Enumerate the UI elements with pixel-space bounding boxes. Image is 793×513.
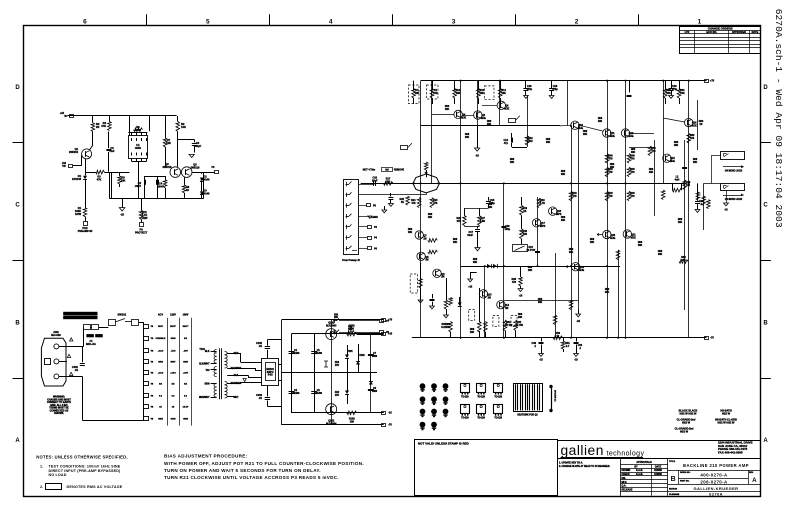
svg-text:R00: R00 bbox=[678, 219, 683, 221]
svg-text:HEATSINK FOR Q1: HEATSINK FOR Q1 bbox=[517, 414, 538, 417]
svg-text:10K: 10K bbox=[583, 134, 588, 136]
svg-text:4uH: 4uH bbox=[675, 178, 680, 181]
svg-text:HS2 W: HS2 W bbox=[682, 420, 691, 424]
svg-text:10K: 10K bbox=[666, 92, 671, 95]
svg-text:TURN ON POWER AND WAIT 5 SECON: TURN ON POWER AND WAIT 5 SECONDS FOR TUR… bbox=[164, 468, 321, 473]
svg-text:10K: 10K bbox=[678, 222, 683, 224]
svg-text:HS2 W: HS2 W bbox=[680, 429, 689, 433]
svg-text:10K: 10K bbox=[605, 292, 610, 294]
svg-text:CONNECT TO EARTH: CONNECT TO EARTH bbox=[47, 401, 71, 404]
svg-text:1K POT: 1K POT bbox=[526, 249, 535, 252]
svg-text:MJE: MJE bbox=[481, 117, 486, 120]
svg-text:10K: 10K bbox=[334, 317, 338, 319]
svg-text:1/2W: 1/2W bbox=[75, 212, 82, 216]
svg-text:100V: 100V bbox=[183, 314, 189, 317]
svg-text:CHANGE ORDERS: CHANGE ORDERS bbox=[708, 26, 733, 30]
svg-text:15V: 15V bbox=[335, 395, 340, 397]
svg-text:TO-220: TO-220 bbox=[494, 396, 502, 398]
svg-text:BRN: BRN bbox=[205, 384, 210, 386]
svg-text:WHT*: WHT* bbox=[170, 326, 176, 328]
svg-text:A: A bbox=[752, 477, 757, 484]
svg-text:A: A bbox=[763, 438, 768, 444]
svg-text:10K: 10K bbox=[693, 162, 698, 164]
svg-text:2K2: 2K2 bbox=[386, 180, 391, 183]
svg-text:WHT: WHT bbox=[171, 361, 177, 363]
svg-text:R00: R00 bbox=[693, 159, 698, 161]
svg-text:10uF: 10uF bbox=[467, 234, 473, 237]
svg-text:T101: T101 bbox=[199, 348, 205, 351]
svg-text:10K/80: 10K/80 bbox=[292, 353, 300, 355]
svg-text:330: 330 bbox=[523, 233, 528, 236]
svg-text:R00: R00 bbox=[518, 314, 523, 316]
svg-text:1N4148: 1N4148 bbox=[72, 177, 82, 181]
svg-text:2: 2 bbox=[575, 19, 579, 26]
svg-text:NOTES: UNLESS OTHERWISE SPECIF: NOTES: UNLESS OTHERWISE SPECIFIED, bbox=[36, 455, 127, 460]
svg-text:WHT*: WHT* bbox=[183, 326, 189, 328]
svg-text:1/4 MONO JACK: 1/4 MONO JACK bbox=[725, 170, 743, 173]
svg-text:1/30/03: 1/30/03 bbox=[654, 474, 662, 476]
svg-text:DATE: DATE bbox=[655, 465, 662, 468]
svg-text:5: 5 bbox=[206, 19, 210, 26]
svg-text:K.A.B.: K.A.B. bbox=[636, 473, 643, 476]
svg-text:WITH POWER OFF, ADJUST POT R21: WITH POWER OFF, ADJUST POT R21 TO FULL C… bbox=[164, 461, 364, 466]
svg-text:ISS.: ISS. bbox=[622, 478, 627, 480]
svg-text:R00: R00 bbox=[408, 229, 413, 231]
svg-text:ZD1: ZD1 bbox=[335, 362, 340, 364]
svg-text:+15: +15 bbox=[60, 112, 65, 115]
svg-text:+43.6: +43.6 bbox=[170, 371, 176, 374]
svg-text:MJ15003: MJ15003 bbox=[326, 324, 337, 327]
svg-text:100p: 100p bbox=[505, 228, 511, 231]
svg-text:technology: technology bbox=[607, 450, 645, 457]
svg-text:R00: R00 bbox=[561, 171, 566, 173]
svg-text:2N: 2N bbox=[425, 259, 428, 262]
svg-text:10K: 10K bbox=[590, 242, 595, 244]
svg-text:LTR: LTR bbox=[685, 31, 690, 34]
svg-text:2. CHANGE SLOPE AT REAR TO 15: 2. CHANGE SLOPE AT REAR TO 15 DEGREES. bbox=[559, 465, 610, 468]
svg-text:MPS: MPS bbox=[556, 213, 562, 216]
svg-text:GRN: GRN bbox=[183, 361, 188, 363]
svg-text:D101: D101 bbox=[347, 351, 353, 353]
svg-text:bbl: bbl bbox=[385, 170, 389, 172]
svg-text:2.: 2. bbox=[40, 485, 43, 489]
svg-text:100: 100 bbox=[350, 420, 355, 423]
svg-text:GRN: GRN bbox=[158, 361, 163, 363]
svg-text:1: 1 bbox=[698, 19, 702, 26]
svg-text:R00: R00 bbox=[583, 131, 588, 133]
svg-text:2K: 2K bbox=[96, 125, 99, 129]
svg-text:GRN: GRN bbox=[171, 338, 176, 340]
svg-text:-43.6: -43.6 bbox=[171, 350, 177, 353]
svg-text:10K: 10K bbox=[488, 207, 493, 209]
svg-text:2N5210: 2N5210 bbox=[163, 165, 173, 169]
svg-text:B: B bbox=[671, 476, 676, 483]
svg-text:47K: 47K bbox=[101, 124, 106, 128]
svg-text:NO LOAD: NO LOAD bbox=[49, 473, 67, 477]
svg-text:470p: 470p bbox=[552, 88, 558, 91]
svg-text:MJE: MJE bbox=[628, 135, 633, 138]
svg-text:1.: 1. bbox=[40, 465, 43, 469]
svg-text:+43V: +43V bbox=[183, 371, 189, 374]
svg-text:+75: +75 bbox=[710, 80, 715, 83]
svg-text:CHASSIS GND MUST: CHASSIS GND MUST bbox=[47, 398, 71, 401]
svg-text:470: 470 bbox=[630, 171, 635, 174]
svg-text:1000: 1000 bbox=[372, 391, 378, 393]
svg-text:1K: 1K bbox=[523, 210, 526, 213]
svg-text:R00: R00 bbox=[470, 329, 475, 331]
svg-text:.0047: .0047 bbox=[135, 184, 142, 188]
svg-text:MJE: MJE bbox=[670, 160, 675, 163]
svg-text:10/5/99: 10/5/99 bbox=[654, 470, 662, 472]
svg-text:D102: D102 bbox=[359, 355, 365, 357]
svg-text:10K: 10K bbox=[121, 178, 126, 182]
svg-text:22K: 22K bbox=[166, 141, 171, 145]
svg-text:10K: 10K bbox=[538, 302, 543, 304]
svg-text:.22 5W: .22 5W bbox=[505, 324, 513, 327]
svg-text:47K: 47K bbox=[97, 177, 102, 181]
svg-text:WHT: WHT bbox=[158, 326, 164, 328]
svg-text:SPACER 2.5: SPACER 2.5 bbox=[554, 390, 557, 402]
svg-text:10K: 10K bbox=[569, 252, 574, 254]
svg-text:REMOVE: REMOVE bbox=[394, 170, 405, 172]
svg-text:10uF: 10uF bbox=[372, 179, 378, 182]
svg-text:D: D bbox=[763, 85, 768, 91]
svg-text:470: 470 bbox=[608, 195, 613, 198]
svg-text:HS2 W HS2 W: HS2 W HS2 W bbox=[718, 420, 736, 424]
svg-text:ACV: ACV bbox=[158, 314, 164, 317]
svg-text:ECO NO.: ECO NO. bbox=[706, 31, 717, 34]
svg-text:470: 470 bbox=[411, 202, 416, 205]
svg-text:10K: 10K bbox=[610, 167, 615, 169]
svg-text:470: 470 bbox=[651, 150, 656, 153]
svg-text:47p: 47p bbox=[504, 142, 509, 145]
svg-text:R00: R00 bbox=[674, 142, 679, 144]
svg-text:TO-220: TO-220 bbox=[461, 418, 469, 420]
svg-text:-15: -15 bbox=[120, 213, 124, 217]
svg-text:From Preamp J2: From Preamp J2 bbox=[342, 260, 360, 262]
svg-text:ORN/BLK: ORN/BLK bbox=[156, 338, 166, 340]
svg-text:10K/80: 10K/80 bbox=[314, 393, 322, 395]
svg-text:10K: 10K bbox=[487, 124, 492, 126]
svg-text:10K: 10K bbox=[598, 121, 603, 123]
svg-text:K.A.B.: K.A.B. bbox=[636, 469, 643, 472]
svg-text:DRWG NO.: DRWG NO. bbox=[680, 472, 691, 474]
svg-text:MJE: MJE bbox=[631, 236, 636, 239]
svg-text:10K: 10K bbox=[528, 270, 533, 272]
svg-text:6270A: 6270A bbox=[709, 491, 723, 496]
svg-text:4558: 4558 bbox=[135, 146, 141, 150]
svg-text:+15: +15 bbox=[468, 287, 473, 289]
svg-text:.01: .01 bbox=[74, 368, 78, 372]
svg-text:REV.: REV. bbox=[749, 472, 754, 474]
svg-text:150: 150 bbox=[690, 137, 695, 140]
svg-text:R00: R00 bbox=[631, 149, 636, 151]
svg-text:1/4 MONO JACK: 1/4 MONO JACK bbox=[725, 198, 743, 201]
svg-text:MJE: MJE bbox=[692, 124, 697, 127]
svg-text:TO-220: TO-220 bbox=[494, 418, 502, 420]
svg-text:10K: 10K bbox=[446, 327, 451, 329]
svg-text:470: 470 bbox=[433, 202, 438, 205]
svg-text:R00: R00 bbox=[569, 249, 574, 251]
svg-text:-43V: -43V bbox=[183, 350, 188, 353]
svg-text:10K: 10K bbox=[649, 172, 654, 174]
svg-text:PROTECT: PROTECT bbox=[135, 230, 148, 234]
svg-text:HS2 W: HS2 W bbox=[722, 411, 731, 415]
svg-text:1. UPDATE REV TO A.: 1. UPDATE REV TO A. bbox=[559, 462, 583, 465]
svg-text:TIP: TIP bbox=[62, 165, 66, 168]
svg-text:C: C bbox=[15, 203, 20, 209]
svg-text:470p: 470p bbox=[672, 88, 678, 91]
svg-text:R00: R00 bbox=[453, 239, 458, 241]
svg-text:1N4148: 1N4148 bbox=[201, 177, 211, 181]
svg-text:R00: R00 bbox=[528, 267, 533, 269]
svg-text:C: C bbox=[763, 203, 768, 209]
svg-text:1K: 1K bbox=[699, 123, 702, 126]
svg-text:R00: R00 bbox=[649, 169, 654, 171]
svg-text:MJE: MJE bbox=[579, 269, 584, 272]
svg-text:R00: R00 bbox=[605, 289, 610, 291]
svg-text:DATE: DATE bbox=[752, 31, 759, 34]
svg-text:10K: 10K bbox=[181, 125, 186, 129]
svg-text:.22 5W: .22 5W bbox=[515, 324, 523, 327]
svg-text:+43.6: +43.6 bbox=[158, 371, 164, 374]
svg-text:10K: 10K bbox=[428, 217, 433, 219]
svg-text:PREAMP-IN: PREAMP-IN bbox=[78, 229, 93, 233]
svg-text:D: D bbox=[15, 85, 20, 91]
svg-text:TITLE: TITLE bbox=[669, 461, 676, 463]
svg-text:+43.6: +43.6 bbox=[158, 350, 164, 353]
svg-text:IEC-320: IEC-320 bbox=[51, 333, 61, 337]
svg-text:2K2: 2K2 bbox=[528, 140, 533, 143]
svg-text:FILENAME: FILENAME bbox=[669, 493, 680, 496]
svg-text:10K: 10K bbox=[473, 262, 478, 264]
svg-text:10K: 10K bbox=[456, 92, 461, 95]
svg-text:400-0270-A: 400-0270-A bbox=[700, 473, 728, 478]
svg-text:47K: 47K bbox=[456, 220, 461, 223]
svg-text:15.3V: 15.3V bbox=[183, 407, 189, 409]
svg-text:2N: 2N bbox=[423, 237, 426, 240]
svg-text:BY: BY bbox=[634, 465, 638, 468]
svg-text:R00: R00 bbox=[638, 242, 643, 244]
svg-text:100K: 100K bbox=[135, 128, 141, 132]
svg-text:TO-220: TO-220 bbox=[477, 418, 485, 420]
svg-text:10K: 10K bbox=[518, 317, 523, 319]
svg-text:AGND: AGND bbox=[371, 216, 378, 219]
svg-text:MJE: MJE bbox=[578, 127, 583, 130]
svg-text:470: 470 bbox=[630, 195, 635, 198]
svg-text:MJE: MJE bbox=[461, 116, 466, 119]
svg-text:R00: R00 bbox=[546, 139, 551, 141]
svg-text:GND. ALL 3 IEC: GND. ALL 3 IEC bbox=[50, 404, 68, 407]
svg-text:1K: 1K bbox=[401, 201, 404, 204]
svg-text:SW101: SW101 bbox=[118, 312, 127, 316]
svg-text:TURN R21 CLOCKWISE UNTIL VOLTA: TURN R21 CLOCKWISE UNTIL VOLTAGE ACCROSS… bbox=[164, 475, 339, 480]
svg-text:R00: R00 bbox=[510, 159, 515, 161]
svg-text:-75: -75 bbox=[388, 424, 392, 427]
svg-text:DRAWN: DRAWN bbox=[622, 469, 631, 472]
svg-text:4: 4 bbox=[329, 19, 333, 26]
svg-text:R00: R00 bbox=[538, 299, 543, 301]
svg-text:GRN: GRN bbox=[158, 419, 163, 421]
svg-text:.1uF: .1uF bbox=[109, 149, 115, 153]
svg-text:CHECK: CHECK bbox=[622, 474, 631, 476]
svg-text:10K: 10K bbox=[480, 92, 485, 95]
svg-text:All Others ACV Term/Faston: All Others ACV Term/Faston bbox=[65, 317, 96, 320]
svg-text:MJE: MJE bbox=[504, 107, 509, 110]
svg-text:10K: 10K bbox=[674, 145, 679, 147]
svg-text:206-0270-A: 206-0270-A bbox=[700, 480, 728, 485]
svg-text:10K/80: 10K/80 bbox=[292, 393, 300, 395]
svg-text:470: 470 bbox=[572, 195, 577, 198]
svg-text:4.7K: 4.7K bbox=[540, 202, 545, 205]
svg-text:470: 470 bbox=[608, 171, 613, 174]
svg-text:APPROVED: APPROVED bbox=[732, 31, 746, 34]
svg-text:2N: 2N bbox=[441, 276, 444, 279]
svg-text:TO-220: TO-220 bbox=[477, 396, 485, 398]
svg-text:2N: 2N bbox=[505, 307, 508, 310]
svg-text:GRN: GRN bbox=[183, 419, 188, 421]
svg-text:10K: 10K bbox=[445, 109, 450, 111]
svg-text:6.8K: 6.8K bbox=[480, 220, 485, 223]
svg-text:10K: 10K bbox=[638, 245, 643, 247]
svg-text:-15: -15 bbox=[519, 295, 523, 298]
svg-text:10K: 10K bbox=[433, 92, 438, 95]
svg-text:ZD2: ZD2 bbox=[335, 392, 340, 394]
svg-text:SHOWN.: SHOWN. bbox=[54, 413, 64, 415]
svg-text:10K: 10K bbox=[658, 254, 663, 256]
svg-text:2N5210: 2N5210 bbox=[69, 150, 79, 154]
svg-text:VIO: VIO bbox=[206, 370, 210, 372]
svg-text:GRN: GRN bbox=[171, 419, 176, 421]
svg-text:BRN/WHT: BRN/WHT bbox=[199, 397, 210, 399]
svg-text:R00: R00 bbox=[428, 214, 433, 216]
svg-text:R00: R00 bbox=[598, 118, 603, 120]
svg-text:10K: 10K bbox=[561, 174, 566, 176]
svg-text:8-02: 8-02 bbox=[268, 374, 274, 377]
svg-text:R00: R00 bbox=[590, 239, 595, 241]
svg-text:TO-220: TO-220 bbox=[461, 396, 469, 398]
svg-text:-75: -75 bbox=[710, 337, 714, 340]
svg-text:MJE: MJE bbox=[610, 135, 615, 138]
svg-text:BLK: BLK bbox=[205, 351, 210, 353]
svg-text:A: A bbox=[15, 438, 20, 444]
svg-text:10K: 10K bbox=[470, 332, 475, 334]
svg-text:MPS: MPS bbox=[540, 225, 546, 228]
svg-text:470: 470 bbox=[512, 281, 517, 284]
svg-text:2N5210: 2N5210 bbox=[191, 165, 201, 169]
svg-text:1K: 1K bbox=[186, 188, 189, 192]
svg-text:FAX 408-441-8085: FAX 408-441-8085 bbox=[718, 451, 743, 455]
svg-text:MJE: MJE bbox=[610, 237, 615, 240]
svg-text:gallien: gallien bbox=[561, 443, 604, 458]
svg-text:BACKLINE 210 POWER AMP: BACKLINE 210 POWER AMP bbox=[683, 463, 749, 468]
svg-text:R00: R00 bbox=[658, 251, 663, 253]
svg-text:10K: 10K bbox=[680, 92, 685, 95]
svg-text:-15: -15 bbox=[388, 412, 392, 415]
svg-text:R00: R00 bbox=[446, 324, 451, 326]
svg-text:1N4148: 1N4148 bbox=[201, 191, 211, 195]
svg-text:WARNING:: WARNING: bbox=[53, 396, 65, 399]
svg-text:10K/80: 10K/80 bbox=[314, 353, 322, 355]
svg-text:2N: 2N bbox=[488, 296, 491, 299]
svg-text:3: 3 bbox=[452, 19, 456, 26]
svg-text:10K: 10K bbox=[453, 242, 458, 244]
svg-text:PART NO.: PART NO. bbox=[680, 479, 690, 482]
svg-text:6: 6 bbox=[83, 19, 87, 26]
svg-text:10K: 10K bbox=[510, 162, 515, 164]
svg-text:10K: 10K bbox=[465, 137, 470, 139]
svg-text:MJ15004: MJ15004 bbox=[326, 422, 337, 425]
svg-text:R00: R00 bbox=[488, 204, 493, 206]
svg-text:120V: 120V bbox=[170, 314, 176, 317]
svg-text:10K: 10K bbox=[546, 142, 551, 144]
svg-text:HS2 W HS2 W: HS2 W HS2 W bbox=[680, 411, 698, 415]
svg-text:B: B bbox=[763, 320, 768, 326]
svg-text:R00: R00 bbox=[465, 134, 470, 136]
svg-text:NOT VALID UNLESS STAMP IS RED: NOT VALID UNLESS STAMP IS RED bbox=[418, 441, 470, 445]
svg-text:10K: 10K bbox=[631, 152, 636, 154]
svg-text:R00: R00 bbox=[473, 259, 478, 261]
svg-text:BIAS ADJUSTMENT PROCEDURE:: BIAS ADJUSTMENT PROCEDURE: bbox=[164, 454, 248, 459]
svg-text:R00: R00 bbox=[561, 217, 566, 219]
svg-text:1/2W: 1/2W bbox=[142, 216, 149, 220]
svg-text:470p: 470p bbox=[527, 88, 533, 91]
svg-text:CONNECTED AS: CONNECTED AS bbox=[50, 409, 69, 412]
svg-text:R00: R00 bbox=[487, 121, 492, 123]
svg-text:R00: R00 bbox=[610, 164, 615, 166]
svg-text:10K: 10K bbox=[408, 232, 413, 234]
svg-text:MFG: MFG bbox=[622, 482, 627, 484]
svg-text:470: 470 bbox=[608, 157, 613, 160]
svg-text:TERMS MUST BE: TERMS MUST BE bbox=[49, 408, 69, 410]
svg-text:EDITION: EDITION bbox=[669, 489, 678, 491]
svg-text:B: B bbox=[15, 320, 20, 326]
svg-text:NON-Stby Term/Solder Joints: NON-Stby Term/Solder Joints bbox=[65, 313, 97, 316]
svg-text:R00: R00 bbox=[445, 106, 450, 108]
svg-text:10K: 10K bbox=[348, 329, 352, 331]
svg-text:NOT 4 Thts: NOT 4 Thts bbox=[363, 169, 376, 172]
svg-text:WHT: WHT bbox=[233, 397, 239, 399]
svg-text:1000: 1000 bbox=[372, 356, 378, 358]
svg-text:470: 470 bbox=[630, 157, 635, 160]
svg-text:10K: 10K bbox=[501, 92, 506, 95]
svg-text:10K: 10K bbox=[561, 220, 566, 222]
svg-text:MDL-8A: MDL-8A bbox=[86, 342, 96, 346]
svg-text:10K: 10K bbox=[681, 259, 686, 262]
svg-text:15V: 15V bbox=[335, 365, 340, 367]
svg-text:APPROVALS: APPROVALS bbox=[636, 461, 652, 464]
svg-text:Q.A.: Q.A. bbox=[622, 485, 627, 488]
svg-text:RELEASE: RELEASE bbox=[622, 489, 633, 492]
svg-text:6270A.sch-1 - Wed Apr 09 18:17: 6270A.sch-1 - Wed Apr 09 18:17:04 2003 bbox=[773, 9, 784, 228]
svg-text:DENOTES RMS AC VOLTAGE: DENOTES RMS AC VOLTAGE bbox=[67, 485, 123, 489]
svg-text:BLK/WHT: BLK/WHT bbox=[199, 364, 210, 366]
